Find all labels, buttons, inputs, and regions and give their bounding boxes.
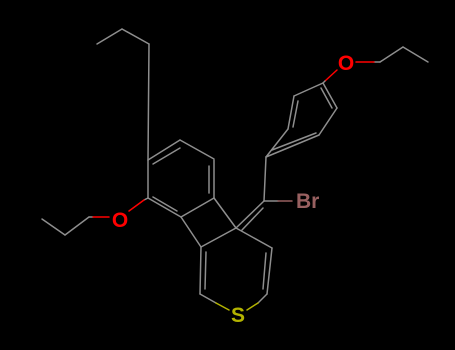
svg-text:S: S [231,304,245,327]
svg-text:Br: Br [296,190,319,213]
svg-text:O: O [338,52,354,75]
svg-text:O: O [112,209,128,232]
